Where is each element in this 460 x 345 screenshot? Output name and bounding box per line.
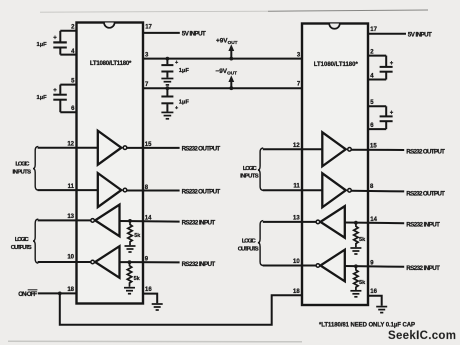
+9V OUT arrow bbox=[228, 44, 234, 58]
wire -9V rail (U1 pin7 to U2 pin7) bbox=[143, 87, 302, 89]
wire U1 pin 16 to ground bbox=[143, 294, 157, 304]
IC U1 LT1080/LT1180 (left) body bbox=[77, 23, 144, 304]
driver buffer A1 (U1) bbox=[98, 131, 127, 165]
svg-text:LOGIC: LOGIC bbox=[15, 162, 30, 168]
driver buffer A6 (U2) bbox=[322, 173, 351, 207]
wire U1 pin 13 logic output bbox=[38, 219, 91, 221]
svg-text:14: 14 bbox=[145, 215, 152, 221]
svg-text:5k: 5k bbox=[134, 233, 141, 239]
node junction C3 on +9V rail bbox=[166, 57, 170, 61]
svg-text:13: 13 bbox=[293, 215, 300, 221]
wire on-off bottom run to U2 pin 18 bbox=[60, 293, 302, 324]
svg-text:INPUTS: INPUTS bbox=[240, 174, 259, 180]
node junction +9V arrow on rail bbox=[229, 57, 233, 61]
receiver buffer A7 (U2) bbox=[316, 206, 345, 238]
svg-text:+: + bbox=[390, 111, 394, 117]
capacitor C4 1uF (-9V rail to gnd) bbox=[161, 88, 178, 111]
receiver buffer A8 (U2) bbox=[316, 250, 345, 282]
ground for C4 bbox=[161, 112, 173, 118]
node junction C4 on -9V rail bbox=[166, 86, 170, 90]
wire U2 pin 16 to ground bbox=[368, 296, 382, 306]
svg-text:15: 15 bbox=[370, 143, 377, 149]
receiver buffer A4 (U1) bbox=[91, 246, 120, 278]
resistor R4 5k bbox=[354, 266, 358, 290]
U1 pin 2 wire stub bbox=[60, 30, 76, 32]
svg-text:LOGIC: LOGIC bbox=[243, 166, 258, 172]
wire U2 pin 10 logic output bbox=[263, 265, 316, 267]
svg-text:1µF: 1µF bbox=[37, 42, 48, 48]
wire ON-OFF to U1 pin 18 bbox=[38, 292, 77, 294]
svg-text:SeekIC.com: SeekIC.com bbox=[388, 330, 456, 342]
capacitor C5 1uF (U2 pins 2-4) bbox=[380, 56, 394, 80]
U1 pin 5 wire stub bbox=[60, 84, 76, 86]
svg-text:ON-OFF: ON-OFF bbox=[18, 291, 37, 298]
capacitor C3 1uF (+9V rail to gnd) bbox=[161, 59, 178, 78]
svg-text:OUTPUTS: OUTPUTS bbox=[238, 246, 259, 252]
ground for U2 pin 16 bbox=[376, 307, 387, 313]
svg-text:RS232 OUTPUT: RS232 OUTPUT bbox=[406, 148, 445, 155]
wire RS232 INPUT to U1 pin 9 bbox=[120, 261, 180, 263]
U2 pin 2 wire stub bbox=[368, 55, 386, 57]
svg-text:RS232 OUTPUT: RS232 OUTPUT bbox=[182, 188, 221, 195]
net label ON-OFF bbox=[18, 290, 37, 298]
svg-text:1µF: 1µF bbox=[179, 68, 190, 74]
IC U2 LT1080/LT1180 (right) body bbox=[302, 24, 368, 306]
svg-text:16: 16 bbox=[370, 289, 377, 295]
svg-text:1µF: 1µF bbox=[179, 99, 190, 105]
wire U1 pin 8 to RS232 OUTPUT bbox=[127, 190, 180, 192]
resistor R2 5k bbox=[127, 262, 131, 287]
svg-text:RS232 OUTPUT: RS232 OUTPUT bbox=[406, 190, 445, 197]
svg-text:+: + bbox=[53, 36, 57, 42]
svg-text:5V INPUT: 5V INPUT bbox=[182, 31, 206, 38]
svg-text:LT1080/LT1180*: LT1080/LT1180* bbox=[314, 62, 359, 68]
wire logic input 1 to U1 pin 12 bbox=[38, 147, 98, 149]
svg-text:INPUTS: INPUTS bbox=[13, 170, 32, 176]
wire +9V rail (U1 pin3 to U2 pin3) bbox=[143, 58, 302, 60]
node junction R3 on pin14 wire bbox=[354, 221, 358, 225]
svg-text:RS232 INPUT: RS232 INPUT bbox=[406, 221, 440, 228]
capacitor C1 1uF (U1 pins 2-4) bbox=[53, 31, 67, 55]
resistor R3 5k bbox=[354, 223, 358, 248]
svg-text:18: 18 bbox=[293, 289, 300, 295]
svg-text:RS232 INPUT: RS232 INPUT bbox=[182, 220, 216, 227]
node junction on-off branch bbox=[58, 292, 62, 296]
svg-text:RS232 INPUT: RS232 INPUT bbox=[182, 261, 216, 268]
ground for R1 bbox=[125, 246, 136, 252]
svg-text:+: + bbox=[175, 106, 178, 112]
svg-text:11: 11 bbox=[68, 184, 75, 190]
svg-text:RS232 OUTPUT: RS232 OUTPUT bbox=[182, 146, 221, 153]
brace logic outputs (left) bbox=[33, 219, 38, 263]
svg-text:17: 17 bbox=[370, 27, 377, 33]
svg-text:LOGIC: LOGIC bbox=[15, 237, 30, 243]
wire U2 pin 15 to RS232 OUTPUT bbox=[351, 149, 404, 151]
U1 pin 6 wire stub bbox=[60, 111, 76, 113]
capacitor C6 1uF (U2 pins 5-6) bbox=[380, 106, 394, 129]
svg-text:14: 14 bbox=[370, 217, 377, 223]
node junction R1 on pin14 wire bbox=[128, 219, 132, 223]
driver buffer A5 (U2) bbox=[322, 132, 351, 166]
wire RS232 INPUT to U1 pin 14 bbox=[120, 220, 180, 223]
wire U2 pin 8 to RS232 OUTPUT bbox=[351, 190, 404, 193]
U2 pin 4 wire stub bbox=[368, 79, 386, 81]
svg-text:*LT1180/81 NEED ONLY 0.1µF CAP: *LT1180/81 NEED ONLY 0.1µF CAP bbox=[319, 322, 415, 328]
svg-text:10: 10 bbox=[67, 255, 74, 261]
capacitor C2 1uF (U1 pins 5-6) bbox=[53, 85, 67, 113]
svg-text:5k: 5k bbox=[359, 237, 366, 243]
svg-text:10: 10 bbox=[293, 259, 300, 265]
svg-text:15: 15 bbox=[145, 142, 152, 148]
svg-text:RS232 INPUT: RS232 INPUT bbox=[406, 265, 440, 272]
wire U1 pin 10 logic output bbox=[38, 261, 91, 263]
svg-text:OUTPUTS: OUTPUTS bbox=[11, 245, 32, 251]
wire RS232 INPUT to U2 pin 14 bbox=[345, 222, 404, 225]
node junction R4 on pin9 wire bbox=[354, 264, 358, 268]
wire logic input 2 to U2 pin 11 bbox=[263, 189, 323, 191]
svg-text:5V INPUT: 5V INPUT bbox=[408, 31, 432, 38]
wire U1 pin 15 to RS232 OUTPUT bbox=[127, 147, 180, 149]
node junction -9V arrow on rail bbox=[229, 86, 233, 90]
svg-text:5k: 5k bbox=[359, 280, 366, 286]
ground for U1 pin 16 bbox=[152, 304, 163, 310]
brace logic inputs (right) bbox=[258, 148, 263, 190]
resistor R1 5k bbox=[128, 221, 132, 245]
svg-text:LT1080/LT1180*: LT1080/LT1180* bbox=[90, 61, 132, 67]
U1 pin 4 wire stub bbox=[60, 54, 76, 56]
svg-text:5k: 5k bbox=[134, 276, 141, 282]
U2 pin 6 wire stub bbox=[368, 128, 386, 130]
wire logic input 2 to U1 pin 11 bbox=[38, 189, 98, 191]
-9V OUT arrow bbox=[228, 75, 234, 88]
svg-text:+: + bbox=[53, 88, 57, 94]
svg-text:LOGIC: LOGIC bbox=[242, 238, 257, 244]
svg-text:13: 13 bbox=[67, 214, 74, 220]
wire U2 pin 13 logic output bbox=[263, 221, 316, 223]
U2 pin 5 wire stub bbox=[368, 105, 386, 107]
U2 pin 17 wire to 5V INPUT bbox=[368, 33, 406, 35]
svg-text:17: 17 bbox=[145, 24, 152, 30]
svg-text:18: 18 bbox=[67, 287, 74, 293]
node junction R2 on pin9 wire bbox=[128, 260, 132, 264]
brace logic inputs (left) bbox=[33, 146, 38, 190]
svg-text:1µF: 1µF bbox=[37, 95, 48, 101]
wire logic input 1 to U2 pin 12 bbox=[263, 148, 323, 150]
svg-text:+: + bbox=[175, 60, 178, 66]
ground for R3 bbox=[350, 248, 361, 254]
svg-text:+: + bbox=[390, 61, 394, 67]
svg-text:12: 12 bbox=[67, 141, 74, 147]
U1 pin 17 wire to 5V INPUT bbox=[143, 32, 180, 34]
receiver buffer A3 (U1) bbox=[91, 205, 120, 237]
driver buffer A2 (U1) bbox=[98, 173, 127, 207]
ground for R4 bbox=[350, 291, 361, 297]
brace logic outputs (right) bbox=[258, 221, 263, 266]
ground for R2 bbox=[124, 288, 135, 294]
wire RS232 INPUT to U2 pin 9 bbox=[345, 265, 404, 268]
svg-text:12: 12 bbox=[293, 143, 300, 149]
svg-text:16: 16 bbox=[145, 287, 152, 293]
svg-text:11: 11 bbox=[293, 184, 300, 190]
ground for C3 bbox=[161, 79, 173, 85]
